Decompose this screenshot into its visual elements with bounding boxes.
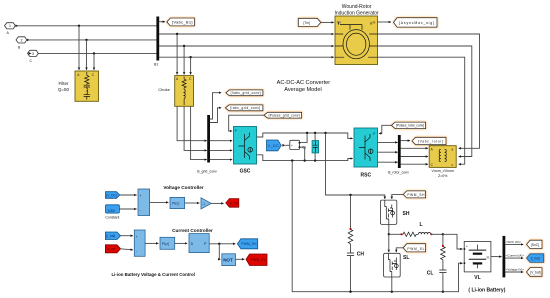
PI controller PI(s) <box>170 197 185 208</box>
svg-text:( Li-ion Battery): ( Li-ion Battery) <box>468 288 505 294</box>
node junction SL on bottom wire <box>391 291 393 293</box>
wire choke tap a <box>176 34 178 75</box>
svg-text:Current Controller: Current Controller <box>172 228 213 233</box>
node junction phase B to filter <box>85 39 87 41</box>
svg-text:Ib_ref: Ib_ref <box>107 247 115 251</box>
wire rotor phase a: generator a to transformer a <box>378 34 480 148</box>
svg-text:SL: SL <box>403 255 409 261</box>
node junction VM+ on top rail <box>306 132 308 134</box>
goto tag [AsyncMac_sig] <box>394 18 438 27</box>
svg-text:Constant: Constant <box>105 215 119 219</box>
wire DC- rail to battery negative (bottom return) <box>292 161 462 292</box>
svg-text:1150: 1150 <box>107 209 115 213</box>
wire bus to transformer C <box>400 163 428 165</box>
goto tag [SoC] <box>527 240 543 248</box>
svg-text:PWM_SL: PWM_SL <box>407 247 424 251</box>
from tag [Pulses_rotor_conv] <box>392 122 426 129</box>
wire pulses to GSC P input <box>229 115 264 131</box>
svg-text:2: 2 <box>21 38 23 42</box>
wire GSC - to DC bottom rail <box>257 155 353 161</box>
constant 1150 <box>106 205 120 213</box>
wire choke out c to bus B_grid_conv <box>191 106 207 159</box>
svg-text:B_rotor_conv: B_rotor_conv <box>388 171 409 175</box>
svg-text:NOT: NOT <box>223 258 233 263</box>
input port 3 (C) <box>28 50 39 63</box>
wire VM + to top rail <box>300 133 308 143</box>
wire gain to Ib_ref goto <box>211 202 223 204</box>
wire stator phase b: bus B1 to generator B <box>159 45 334 47</box>
wire PWM_SL to SL gate <box>396 248 403 252</box>
wire SH source to node <box>388 224 390 234</box>
wire stator phase c: bus B1 to generator C <box>159 56 334 58</box>
svg-text:a: a <box>451 148 453 152</box>
svg-text:+: + <box>136 235 138 239</box>
svg-text:Voltage Controller: Voltage Controller <box>163 185 203 190</box>
wire V_DC to sum <box>120 194 137 196</box>
svg-text:<SOC (%)>: <SOC (%)> <box>506 240 522 244</box>
wire bus to transformer A <box>400 147 428 149</box>
svg-text:[Vabc_B1]: [Vabc_B1] <box>172 20 193 25</box>
goto tag [Vabc_rotor] <box>412 137 446 144</box>
wire 1150 to sum <box>119 208 136 210</box>
wire PI(s) to gain <box>185 202 200 204</box>
input port 1 (A) <box>5 23 16 36</box>
svg-text:[V_DC]: [V_DC] <box>106 193 116 197</box>
svg-text:Induction Generator: Induction Generator <box>334 11 379 17</box>
wire choke tap c <box>190 57 192 74</box>
svg-text:+: + <box>140 194 142 198</box>
svg-text:[Pulses_grid_conv]: [Pulses_grid_conv] <box>269 114 300 118</box>
generator block (Wound-Rotor Induction Generator) <box>335 16 378 65</box>
wire SOC output <box>505 243 523 245</box>
svg-text:Filter: Filter <box>59 81 70 86</box>
svg-text:L: L <box>420 222 423 228</box>
from tag [V_DC] <box>106 192 120 199</box>
input port 2 (B) <box>16 37 27 50</box>
sum block voltage loop <box>138 189 150 216</box>
node junction C1 top on top rail <box>314 132 316 134</box>
svg-text:B: B <box>18 45 21 49</box>
transformer Vnom_r/Vnom <box>429 146 456 168</box>
wire rotor phase c: generator c to transformer c <box>378 57 465 164</box>
from tag [Pulses_grid_conv] <box>264 112 302 118</box>
goto tag [Iabc_grid_conv] <box>225 105 263 111</box>
svg-text:P: P <box>373 132 375 136</box>
capacitor C1 block <box>312 141 319 153</box>
svg-text:VL: VL <box>474 275 480 281</box>
wire rotor phase b: generator b to transformer b <box>378 46 472 157</box>
wire P output to PWM_SH goto <box>209 243 235 245</box>
svg-text:[AsyncMac_sig]: [AsyncMac_sig] <box>399 21 434 25</box>
from tag [PWM_SH] <box>403 191 425 198</box>
wire branch to NOT <box>219 244 220 259</box>
node junction VM- on bottom rail <box>304 159 306 161</box>
from tag [Tm] <box>298 18 321 26</box>
wire sum2 to PI(z) <box>145 242 158 244</box>
wire SL source to bottom wire <box>391 277 393 292</box>
svg-text:C1: C1 <box>302 145 306 149</box>
goto tag [PWM_SL] red <box>246 254 267 266</box>
wire RSC A to bus B_rotor_conv <box>378 141 398 143</box>
svg-text:SH: SH <box>403 211 410 217</box>
svg-text:[I_bat]: [I_bat] <box>531 257 540 261</box>
wire pulses to RSC P input <box>379 125 392 133</box>
svg-text:Q=50: Q=50 <box>58 87 70 92</box>
goto tag [Ib_ref] red <box>226 199 239 208</box>
wire filter tap A <box>78 26 80 70</box>
wire phase C from port 3 to bus B1 <box>38 52 156 54</box>
wire L node to battery positive <box>443 234 463 249</box>
wire RSC C to bus B_rotor_conv <box>378 161 398 163</box>
wire bus to GSC phase A <box>210 140 232 142</box>
goto tag [Vabc_grid_conv] <box>226 90 263 96</box>
port 3 output arrow <box>29 52 32 55</box>
logic NOT block <box>222 254 236 266</box>
svg-text:PI(z): PI(z) <box>162 242 169 246</box>
bus bar B_grid_conv <box>207 115 210 163</box>
wire stator phase a: bus B1 to generator A <box>159 33 334 35</box>
bus bar B1 <box>156 17 159 61</box>
svg-text:[Vabc_rotor]: [Vabc_rotor] <box>418 140 443 144</box>
goto tag [V_DC] <box>267 140 282 151</box>
svg-text:B1: B1 <box>154 63 158 67</box>
wire Vabc measurement to tag <box>210 93 221 119</box>
wire phase B from port 2 to bus B1 <box>27 39 157 41</box>
svg-text:Wound-Rotor: Wound-Rotor <box>342 4 372 10</box>
node junction CH tap <box>349 194 351 196</box>
node junction choke tap a <box>176 33 178 35</box>
bus selector bar <box>502 236 505 278</box>
wire bus to GSC phase B <box>210 149 232 151</box>
svg-text:+: + <box>291 144 293 148</box>
svg-text:PWM_SH: PWM_SH <box>407 193 425 197</box>
voltage measurement block VM <box>290 140 301 149</box>
from tag [I_bat] <box>105 232 120 240</box>
svg-text:A: A <box>7 31 10 35</box>
converter RSC <box>354 128 378 167</box>
wire I_bat to sum2 <box>121 235 133 237</box>
svg-text:Li-ion Battery Voltage & Curre: Li-ion Battery Voltage & Current Control <box>112 272 195 277</box>
svg-text:[SoC]: [SoC] <box>531 243 539 247</box>
node junction battery return on bottom rail <box>291 159 293 161</box>
node junction phase A to filter <box>78 25 80 27</box>
node junction phase C to filter <box>93 52 95 54</box>
svg-text:PWM_SH: PWM_SH <box>241 242 257 246</box>
svg-text:<Current (A)>: <Current (A)> <box>506 254 525 258</box>
wire DC+ feed to SH drain <box>326 133 385 199</box>
battery VL <box>464 241 491 272</box>
svg-text:1: 1 <box>9 24 11 28</box>
wire node to SL drain <box>388 234 390 252</box>
wire PWM_SH to SH gate <box>392 194 403 199</box>
wire Ib_ref to sum2 <box>121 249 133 250</box>
node junction choke tap c <box>189 56 191 58</box>
svg-text:[Pulses_rotor_conv]: [Pulses_rotor_conv] <box>396 124 424 128</box>
port 2 output arrow <box>27 39 30 42</box>
svg-text:Z=0%: Z=0% <box>438 174 447 178</box>
svg-text:P: P <box>235 129 237 133</box>
node junction choke tap b <box>183 45 185 47</box>
wire generator m to AsyncMac tag <box>378 21 392 23</box>
node junction CH on bottom wire <box>349 291 351 293</box>
wire battery m to measurement bus <box>491 256 502 258</box>
svg-text:-: - <box>140 209 141 213</box>
svg-text:3: 3 <box>32 52 34 56</box>
svg-text:Ib_ref: Ib_ref <box>230 201 238 205</box>
node junction buck feed on top rail <box>324 132 326 134</box>
wire VM - to bottom rail <box>300 147 305 160</box>
MOSFET SL <box>384 253 401 277</box>
branch CL (series RC to bottom wire) <box>439 234 446 291</box>
sum block current loop <box>134 230 145 256</box>
svg-text:m: m <box>487 255 490 259</box>
wire Voltage output <box>505 271 523 273</box>
wire PI(z) to PWM generator <box>175 242 188 244</box>
svg-text:[Tm]: [Tm] <box>304 21 310 25</box>
svg-text:<Voltage (V)>: <Voltage (V)> <box>506 268 525 272</box>
svg-text:B_grid_conv: B_grid_conv <box>197 170 217 174</box>
wire C1 to rails <box>314 133 316 141</box>
svg-text:-1: -1 <box>202 202 205 206</box>
wire bus to GSC phase C <box>210 159 232 161</box>
svg-text:C: C <box>30 59 33 63</box>
wire filter tap C <box>93 53 95 70</box>
svg-text:RSC: RSC <box>361 173 372 179</box>
wire RSC B to bus B_rotor_conv <box>378 151 398 153</box>
wire sum to PI(s) <box>150 201 169 203</box>
goto tag [I_bat] <box>527 254 544 263</box>
converter GSC <box>234 127 257 165</box>
svg-text:CL: CL <box>427 271 434 277</box>
wire Iabc measurement to tag <box>210 108 221 123</box>
node junction SH/L/SL <box>388 233 390 235</box>
wire choke out a to bus B_grid_conv <box>177 106 207 140</box>
svg-text:[Iabc_grid_conv]: [Iabc_grid_conv] <box>230 106 260 110</box>
wire choke out b to bus B_grid_conv <box>184 106 207 150</box>
svg-text:[V_bat]: [V_bat] <box>530 270 540 274</box>
wire bus to transformer B <box>400 156 428 158</box>
svg-text:AC-DC-AC Converter: AC-DC-AC Converter <box>277 80 331 86</box>
wire GSC + to DC top rail <box>257 133 353 138</box>
svg-text:CH: CH <box>357 252 365 258</box>
MOSFET SH <box>380 200 396 224</box>
svg-text:Vnom_r/Vnom: Vnom_r/Vnom <box>432 169 454 173</box>
svg-text:PWM_SL: PWM_SL <box>251 258 266 262</box>
wire phase A from port 1 to bus B1 <box>15 25 156 27</box>
PWM generator block D/P <box>189 234 209 253</box>
svg-text:m: m <box>373 20 376 24</box>
wire bus B1 to Vabc_B1 tag <box>159 21 165 23</box>
wire Current output <box>505 257 523 259</box>
port 1 output arrow <box>16 25 19 28</box>
svg-text:Choke: Choke <box>158 87 170 92</box>
svg-text:Average Model: Average Model <box>284 87 322 93</box>
svg-text:+: + <box>466 244 468 248</box>
node junction NOT branch <box>218 243 220 245</box>
wire NOT to PWM_SL goto <box>236 258 245 260</box>
choke block <box>175 76 194 107</box>
svg-text:PI(s): PI(s) <box>172 202 179 206</box>
node junction CL on bottom wire <box>442 291 444 293</box>
wire choke tap b <box>183 46 185 75</box>
svg-text:-: - <box>136 249 137 253</box>
gain -1 <box>201 198 211 209</box>
svg-text:[Vabc_grid_conv]: [Vabc_grid_conv] <box>231 91 261 95</box>
from tag [Ib_ref] red <box>105 245 120 253</box>
filter block (Filter Q=50) <box>75 71 99 101</box>
wire Tm to generator <box>321 21 334 23</box>
bus bar B_rotor_conv <box>398 135 401 168</box>
goto tag [V_bat] <box>527 268 543 277</box>
node junction C1 bottom on bottom rail <box>314 159 316 161</box>
svg-text:V_DC: V_DC <box>268 144 279 148</box>
goto tag [Vabc_B1] <box>167 18 195 26</box>
from tag [PWM_SL] <box>403 244 425 252</box>
branch CH (series RC to negative rail) <box>347 195 354 292</box>
inductor L (series RL) <box>389 232 443 236</box>
svg-text:GSC: GSC <box>240 169 251 175</box>
goto tag [PWM_SH] blue <box>237 239 257 249</box>
wire VM output to V_DC goto <box>285 144 290 146</box>
wire filter tap B <box>86 40 88 70</box>
PI controller PI(z) <box>160 237 175 249</box>
svg-text:[I_bat]: [I_bat] <box>106 234 115 238</box>
wire bus to Vabc_rotor tag <box>400 140 410 142</box>
svg-text:Tm: Tm <box>337 20 342 24</box>
node junction L/CL <box>442 233 444 235</box>
